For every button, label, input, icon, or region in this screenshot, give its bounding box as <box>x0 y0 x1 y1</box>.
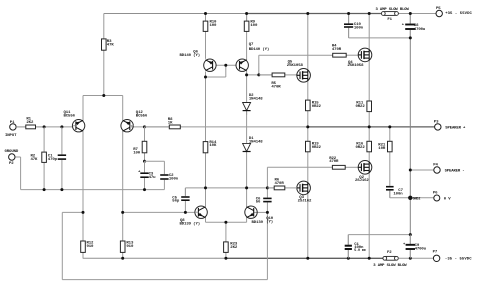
wire Q5 source to R15 <box>307 78 309 100</box>
wire Q7 column upper <box>246 14 248 61</box>
wire Q12 base / feedback node <box>131 126 169 128</box>
svg-text:INPUT: INPUT <box>5 134 17 138</box>
svg-text:P2: P2 <box>9 162 14 166</box>
wire D1 to lower gate node <box>246 156 248 188</box>
wire D2-D1 <box>246 112 248 143</box>
svg-text:GND2: GND2 <box>413 197 421 201</box>
node Q7 emitter / upper gate <box>245 73 248 76</box>
wire diff tail <box>83 50 123 120</box>
svg-text:P1: P1 <box>10 121 15 125</box>
node C10/rail <box>347 12 350 15</box>
svg-text:0R22: 0R22 <box>312 105 322 109</box>
node Q12 base / feedback <box>143 125 146 128</box>
node R12 top <box>82 211 85 214</box>
svg-text:100n: 100n <box>354 26 364 30</box>
node Q5 drain/rail <box>306 12 309 15</box>
node output/right column <box>368 125 371 128</box>
resistor R21 10R <box>378 141 392 152</box>
svg-text:2SK1058: 2SK1058 <box>287 64 304 68</box>
svg-text:100n: 100n <box>169 178 179 182</box>
wire output bus <box>180 126 434 128</box>
svg-text:BD140 (Y): BD140 (Y) <box>249 47 270 52</box>
svg-text:3 AMP SLOW BLOW: 3 AMP SLOW BLOW <box>376 8 410 12</box>
diode D1 1N4148 <box>243 137 264 156</box>
svg-text:P7: P7 <box>433 251 438 255</box>
capacitor C6 56p <box>256 188 272 213</box>
svg-text:100: 100 <box>250 24 258 28</box>
svg-text:910: 910 <box>126 245 134 249</box>
node 0V corner <box>409 233 412 236</box>
node input/R2 <box>43 125 46 128</box>
svg-text:1N4148: 1N4148 <box>249 98 263 102</box>
terminal P5 +35-55VDC <box>436 7 473 17</box>
resistor R1 2K2 <box>16 117 44 128</box>
svg-text:2SJ162: 2SJ162 <box>355 179 369 183</box>
wire C5 top <box>184 188 186 196</box>
wire Q11 collector to U-loop <box>62 212 267 279</box>
wire ground bus <box>21 189 165 191</box>
transistor Q7 BD140 <box>236 43 269 71</box>
svg-text:2SK1058: 2SK1058 <box>347 64 364 68</box>
svg-text:0 V: 0 V <box>444 198 451 202</box>
wire R19 to Q3 <box>307 152 309 185</box>
svg-text:-35 - 55VDC: -35 - 55VDC <box>445 257 472 261</box>
node Q4 drain/rail <box>368 12 371 15</box>
resistor R13 910 <box>120 241 134 252</box>
capacitor C7 100n zobel <box>386 186 404 198</box>
svg-text:47K: 47K <box>107 44 115 48</box>
wire R15 to output <box>307 111 309 141</box>
svg-text:P5: P5 <box>436 7 441 11</box>
svg-text:1N4148: 1N4148 <box>249 141 263 145</box>
node R9/rail <box>245 12 248 15</box>
svg-text:P4: P4 <box>433 163 438 167</box>
node C3/ground <box>143 188 146 191</box>
wire Q11 collector <box>82 131 84 213</box>
wire VAS emitter line <box>206 217 247 222</box>
svg-text:BD139: BD139 <box>252 221 264 225</box>
svg-text:4700u: 4700u <box>415 247 427 251</box>
resistor R2 47K <box>31 127 47 190</box>
transistor Q10 BD139 <box>245 206 274 225</box>
svg-text:F2: F2 <box>387 251 392 255</box>
wire Q2 drain <box>368 170 370 258</box>
svg-text:SPEAKER +: SPEAKER + <box>445 126 466 130</box>
node C1/ground bus <box>60 188 63 191</box>
svg-text:SPEAKER -: SPEAKER - <box>445 170 465 174</box>
node Q3 drain/-rail <box>306 257 309 260</box>
transistor Q11 BC556 <box>64 111 85 132</box>
svg-text:470R: 470R <box>271 85 281 89</box>
wire upper gate feed to R4 <box>259 55 333 75</box>
wire 0V to C9/C11 <box>348 235 410 259</box>
svg-text:P3: P3 <box>434 120 439 124</box>
resistor R12 910 <box>81 241 94 252</box>
svg-text:BC556: BC556 <box>64 114 76 118</box>
resistor R3 47K <box>102 14 115 51</box>
node R10/rail <box>204 12 207 15</box>
node C8/rail <box>409 12 412 15</box>
node R13 bottom <box>121 257 124 260</box>
svg-text:3 AMP SLOW BLOW: 3 AMP SLOW BLOW <box>373 264 407 268</box>
fuse F1 3A slow blow <box>376 8 410 22</box>
wire mirror base tie <box>206 65 237 77</box>
wire 0V line <box>409 38 411 235</box>
diode D2 1N4148 <box>243 94 264 115</box>
svg-text:1K: 1K <box>168 121 173 125</box>
node output/left column <box>306 125 309 128</box>
mosfet Q3 2SJ162 <box>297 181 312 204</box>
capacitor C3 47u <box>138 161 156 189</box>
svg-text:10K: 10K <box>209 144 217 148</box>
transistor Q12 BC556 <box>121 111 148 132</box>
terminal P7 -35-55VDC <box>433 251 473 262</box>
svg-text:100: 100 <box>133 151 141 155</box>
resistor R4 470R <box>332 44 358 57</box>
node speaker-/0V <box>409 169 412 172</box>
wire Q4 drain <box>368 14 370 52</box>
svg-text:470R: 470R <box>329 160 339 164</box>
wire upper gate node <box>247 70 273 102</box>
wire R12 top <box>82 212 84 258</box>
fuse F2 3A slow blow <box>373 251 407 268</box>
transistor Q6 BD140 <box>180 51 217 72</box>
svg-text:+35 - 55VDC: +35 - 55VDC <box>445 12 472 16</box>
capacitor C5 56p <box>172 188 189 213</box>
terminal P3 SPEAKER+ <box>434 120 466 130</box>
wire zobel <box>390 127 411 198</box>
wire R22 feed <box>267 167 332 188</box>
node gate feed split <box>257 73 260 76</box>
transistor Q8 BD139 <box>180 206 208 227</box>
node C8/C10 bottom 0V <box>409 36 412 39</box>
svg-text:2SJ162: 2SJ162 <box>298 200 312 204</box>
svg-text:910: 910 <box>87 245 95 249</box>
svg-text:P6: P6 <box>433 191 438 195</box>
wire -V rail <box>83 257 434 259</box>
resistor R15 0R22 <box>306 100 322 111</box>
svg-text:Q7: Q7 <box>249 43 254 47</box>
svg-text:BD140 (Y): BD140 (Y) <box>180 53 201 58</box>
wire +V rail <box>104 13 436 15</box>
wire C8 leads <box>409 14 411 38</box>
mosfet Q5 2SK1058 <box>287 61 311 83</box>
svg-text:56: 56 <box>256 201 261 205</box>
terminal P6 0V <box>433 191 451 201</box>
wire 0V terminal <box>410 197 434 199</box>
wire Q10 collector <box>246 188 248 207</box>
svg-text:5.0 mm: 5.0 mm <box>354 249 366 253</box>
node mirror bases <box>224 64 227 67</box>
wire C10 top <box>348 14 350 24</box>
svg-text:470p: 470p <box>48 158 58 162</box>
capacitor C9 4700u <box>403 235 427 259</box>
terminal P2 GROUND <box>5 150 19 166</box>
resistor R6 470R <box>267 178 297 189</box>
node tail <box>102 94 105 97</box>
node Q2 drain/-rail <box>368 257 371 260</box>
wire C10 bottom to 0V <box>349 28 411 38</box>
wire VAS base line <box>123 211 195 213</box>
terminal P4 SPEAKER- <box>433 163 464 173</box>
resistor R11 0R22 <box>356 101 372 112</box>
svg-text:F1: F1 <box>387 18 392 22</box>
svg-text:47K: 47K <box>31 158 39 162</box>
resistor R22 470R <box>329 157 358 169</box>
wire Q12 collector <box>122 131 124 213</box>
resistor R23 2K2 <box>224 242 238 253</box>
terminal P1 INPUT <box>5 121 17 138</box>
node zobel top <box>388 125 391 128</box>
wire Q3 drain <box>307 191 309 258</box>
svg-text:10R: 10R <box>378 147 386 151</box>
capacitor C1 470p <box>48 127 66 190</box>
capacitor C10 100n <box>344 14 364 38</box>
wire R23 <box>225 222 227 258</box>
svg-text:56p: 56p <box>172 200 180 204</box>
node Q10 base <box>266 211 269 214</box>
resistor R14 10K <box>203 141 217 153</box>
svg-text:BD139 (Y): BD139 (Y) <box>180 222 201 227</box>
resistor R10 100 <box>203 14 217 32</box>
capacitor C8 4700u <box>402 14 426 38</box>
node 0V big junction <box>408 196 420 202</box>
svg-text:2K2: 2K2 <box>230 246 238 250</box>
resistor R9 100 <box>244 14 258 32</box>
wire Q10 base <box>254 211 268 213</box>
node R2/ground bus <box>43 188 46 191</box>
node C5 bottom <box>184 211 187 214</box>
wire R13 top <box>122 212 124 258</box>
node input/C1 <box>60 125 63 128</box>
svg-text:BC556: BC556 <box>136 114 148 118</box>
wire R16 to Q2 <box>368 152 370 164</box>
wire input node <box>16 126 73 128</box>
resistor R19 0R22 <box>306 141 322 152</box>
wire Q6 column <box>205 14 207 207</box>
node R7/C3 <box>143 160 146 163</box>
node C11/-rail <box>347 257 350 260</box>
wire ground terminal drop <box>15 157 21 190</box>
capacitor C11 100n <box>345 235 366 259</box>
node C9/-rail <box>409 257 412 260</box>
svg-text:(Y): (Y) <box>266 219 273 224</box>
wire lower gate node <box>185 187 274 189</box>
resistor R5 470R <box>259 73 298 89</box>
resistor R7 feedback shunt <box>133 127 147 161</box>
svg-text:2K2: 2K2 <box>26 121 34 125</box>
svg-text:100: 100 <box>210 24 218 28</box>
svg-text:0R22: 0R22 <box>356 146 366 150</box>
mosfet Q4 2SK1058 <box>347 48 371 68</box>
mosfet Q2 2SJ162 <box>355 161 372 184</box>
wire Q5 drain <box>307 14 309 73</box>
node D1/Q10 collector <box>245 186 248 189</box>
node VAS emitter/R23 <box>224 221 227 224</box>
svg-text:0R22: 0R22 <box>312 146 322 150</box>
svg-text:470R: 470R <box>332 48 342 52</box>
node R23 bottom <box>224 257 227 260</box>
node R13 top <box>121 211 124 214</box>
node C6 top / gate node <box>266 186 269 189</box>
wire speaker- <box>410 169 433 171</box>
svg-text:47u: 47u <box>149 176 157 180</box>
svg-text:GROUND: GROUND <box>5 150 19 154</box>
svg-text:0R22: 0R22 <box>356 105 366 109</box>
svg-text:100n: 100n <box>393 192 403 196</box>
resistor R8 feedback <box>145 118 181 129</box>
node C5 top <box>204 186 207 189</box>
node Q6 base-collector tie <box>204 76 207 79</box>
wire R11 to output <box>368 112 370 142</box>
svg-text:470R: 470R <box>275 182 285 186</box>
svg-text:4700u: 4700u <box>414 28 426 32</box>
resistor R16 0R22 <box>356 141 372 152</box>
wire Q4 source to R11 <box>368 58 370 101</box>
wire to C2 <box>145 161 165 174</box>
capacitor C2 100n <box>160 174 179 190</box>
